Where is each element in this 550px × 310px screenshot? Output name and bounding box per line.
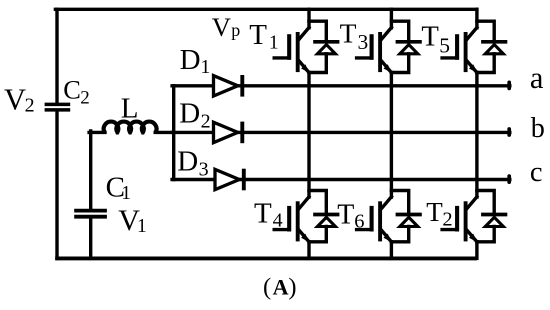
svg-text:D: D xyxy=(179,97,200,129)
svg-text:A: A xyxy=(273,274,289,299)
svg-text:2: 2 xyxy=(201,111,211,133)
svg-text:D: D xyxy=(180,44,201,76)
svg-text:a: a xyxy=(530,61,544,95)
svg-text:L: L xyxy=(121,92,139,124)
svg-text:2: 2 xyxy=(25,95,35,117)
svg-text:1: 1 xyxy=(269,33,279,54)
svg-text:T: T xyxy=(426,197,443,227)
svg-text:1: 1 xyxy=(200,56,210,78)
svg-text:V: V xyxy=(212,12,231,42)
svg-text:(: ( xyxy=(263,274,271,301)
svg-text:c: c xyxy=(530,157,543,188)
svg-text:4: 4 xyxy=(273,210,283,232)
svg-text:3: 3 xyxy=(199,159,209,181)
svg-text:2: 2 xyxy=(442,209,452,231)
svg-text:D: D xyxy=(177,146,198,178)
svg-text:T: T xyxy=(254,197,272,229)
svg-text:5: 5 xyxy=(439,33,450,57)
svg-text:V: V xyxy=(4,83,26,117)
svg-text:1: 1 xyxy=(121,183,131,204)
svg-text:3: 3 xyxy=(358,30,369,54)
svg-text:6: 6 xyxy=(354,210,364,232)
svg-text:): ) xyxy=(288,274,296,301)
svg-text:T: T xyxy=(421,21,438,52)
svg-text:C: C xyxy=(63,74,81,104)
svg-text:p: p xyxy=(231,20,240,40)
svg-text:T: T xyxy=(337,199,354,230)
svg-text:1: 1 xyxy=(137,216,147,237)
svg-text:T: T xyxy=(340,18,357,49)
svg-text:T: T xyxy=(249,19,267,51)
svg-text:b: b xyxy=(531,113,545,144)
svg-text:2: 2 xyxy=(80,87,90,108)
